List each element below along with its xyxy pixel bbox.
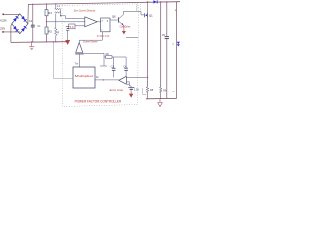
svg-text:R: R (57, 31, 59, 35)
node rail divider column (160, 1, 161, 2)
output column right edge (176, 2, 178, 99)
wire R5 bottom to ground rail (55, 36, 57, 42)
AC terminal bottom (2, 31, 4, 33)
capacitor C5 output (162, 2, 169, 99)
wire current comparator output to flip-flop R (79, 32, 102, 43)
wire top rail to ZCD resistors (55, 4, 57, 8)
node rail R1 column (46, 3, 47, 4)
wire comparator output to flip-flop (97, 21, 100, 23)
bottom rail right (146, 97, 177, 99)
ground arrow under gate drive (122, 29, 126, 35)
pin dot ground rail right end (66, 41, 68, 43)
ground rail (bridge negative) (11, 41, 67, 44)
top rail (28, 2, 180, 5)
svg-text:230V: 230V (0, 26, 5, 30)
wire comparator bar to compensation network (84, 53, 107, 66)
svg-text:C1: C1 (29, 19, 33, 23)
wire bridge right vertex to top rail (27, 4, 29, 23)
wire error amp minus input to reference (126, 82, 131, 87)
svg-text:5.0: 5.0 (70, 25, 74, 29)
svg-text:R1: R1 (48, 11, 52, 15)
wire source column down to sense node (147, 18, 149, 87)
svg-text:2.5V: 2.5V (134, 87, 140, 91)
svg-text:R X12-X10: R X12-X10 (97, 35, 110, 38)
node ground rail ground stem (31, 41, 32, 42)
diode D1 bridge top-left (13, 16, 19, 22)
svg-text:Multiplier: Multiplier (75, 74, 94, 78)
wire R1 to R2 (46, 16, 48, 27)
ground arrow below bottom rail (158, 99, 163, 107)
resistor R8 sense zigzag (146, 87, 148, 93)
wire R3 R4 right join down (60, 9, 62, 16)
wire comparator stem to multiplier (79, 54, 81, 67)
wire R4 left join down (55, 14, 57, 28)
wire AC bottom to bridge (3, 31, 20, 33)
ground symbol under rail (29, 42, 34, 50)
node rail cap column (166, 1, 167, 2)
node divider tap (46, 21, 47, 22)
wire emitter down (122, 25, 125, 29)
node rail C1 column (32, 4, 33, 5)
resistor R6 (104, 53, 126, 59)
battery bars left of reference (66, 27, 69, 31)
resistor R2 (45, 27, 52, 42)
wire ground rail to multiplier left pin (53, 42, 73, 79)
svg-text:Q1: Q1 (149, 13, 153, 17)
resistor R3 zigzag (55, 8, 61, 10)
svg-text:Zero Current Detector: Zero Current Detector (74, 8, 96, 12)
capacitor C1 (29, 4, 35, 42)
node current sense (147, 77, 148, 78)
wire AC top to bridge (3, 13, 20, 15)
resistor R9 zigzag (160, 87, 162, 93)
AC terminal top (2, 14, 4, 16)
wire stray L to divider (143, 88, 147, 94)
wire collector to gate drive pin (123, 12, 144, 15)
wire multiplier output to error amp (95, 79, 119, 81)
op-amp U3 current sense comparator (75, 43, 83, 54)
svg-text:Error Amp: Error Amp (110, 88, 124, 92)
node on ground rail (53, 41, 54, 42)
capacitor C4 (123, 57, 128, 76)
diode D5 boost on rail (153, 0, 157, 3)
wire R8 bottom to rail (147, 92, 149, 98)
capacitor C3 (111, 57, 116, 77)
resistor R1 (45, 4, 52, 16)
wire drain column from rail (147, 2, 149, 13)
resistor R4 zigzag (55, 12, 61, 14)
ground arrow under reference (65, 40, 70, 45)
diode D4 bridge bottom-right (21, 26, 27, 32)
svg-text:Tm: Tm (75, 62, 79, 65)
diode D3 bridge bottom-left (13, 26, 19, 32)
resistor R5 zigzag (55, 28, 58, 36)
diode D2 bridge top-right (21, 16, 27, 22)
reference box 5.0 (69, 24, 85, 29)
wire ZCD pin to comparator plus input (61, 16, 85, 19)
node top rail drain column (147, 1, 149, 3)
battery reference 2.5V (128, 87, 139, 91)
svg-text:POWER FACTOR CONTROLLER: POWER FACTOR CONTROLLER (75, 100, 122, 104)
node rail ZCD column (55, 3, 56, 4)
node ground rail R2 (46, 41, 47, 42)
flip-flop U2 RS latch (101, 18, 110, 32)
multiplier block (73, 67, 95, 88)
node ground rail C1 (32, 41, 33, 42)
wire divider tap to comparator input (47, 21, 85, 23)
op-amp U1 zero current comparator (85, 17, 98, 27)
wire reference to ground arrow (67, 31, 69, 40)
wire error amp plus input to output divider (126, 76, 147, 78)
MOSFET Q1 (144, 13, 153, 18)
svg-text:R2: R2 (48, 29, 52, 33)
wire flip-flop Q to transistor base (110, 19, 119, 21)
transformer boost inductor (136, 4, 140, 12)
wire bridge left vertex to ground rail (10, 24, 13, 43)
wire vcc pin stub (126, 37, 138, 39)
node ZCD pin (60, 15, 61, 16)
op-amp error amplifier (119, 76, 127, 84)
IC dotted box outline (62, 4, 139, 107)
node ground rail R4 (55, 41, 56, 42)
svg-text:C5: C5 (162, 33, 166, 37)
zener diode output clamp (177, 42, 180, 47)
wire divider column from rail (160, 2, 162, 87)
node minus input (127, 84, 128, 85)
bridge rectifier diamond (12, 14, 28, 34)
svg-text:Q6: Q6 (112, 15, 116, 19)
svg-text:U1: U1 (37, 24, 41, 28)
transistor Q6 (112, 15, 124, 26)
svg-text:GateDrive: GateDrive (120, 25, 131, 29)
ground arrow under reference (129, 90, 133, 98)
wire R9 bottom to rail (160, 93, 162, 99)
svg-text:AC230V: AC230V (0, 18, 7, 22)
node multiplier output (103, 79, 104, 80)
